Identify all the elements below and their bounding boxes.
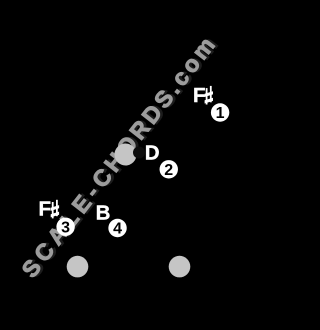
svg-text:2: 2 (164, 162, 173, 179)
svg-text:4: 4 (113, 221, 122, 238)
svg-text:D: D (145, 142, 160, 165)
fret inlay dot bottom-left (67, 256, 89, 278)
finger circle 4 (108, 219, 126, 237)
svg-text:3: 3 (61, 220, 70, 237)
sharp sign of F# (string 4) (51, 200, 59, 219)
svg-text:F: F (39, 198, 52, 221)
svg-text:1: 1 (216, 105, 225, 122)
finger circle 2 (160, 160, 178, 178)
fret inlay dot (mid, over watermark) (115, 144, 137, 166)
fret inlay dot bottom-right (169, 256, 191, 278)
finger circle 3 (56, 218, 74, 236)
shadow bite on mid dot (133, 147, 145, 159)
finger circle 1 (211, 103, 229, 121)
svg-text:F: F (193, 84, 206, 107)
svg-text:B: B (96, 202, 111, 225)
sharp sign of F# (string 1) (205, 86, 213, 105)
